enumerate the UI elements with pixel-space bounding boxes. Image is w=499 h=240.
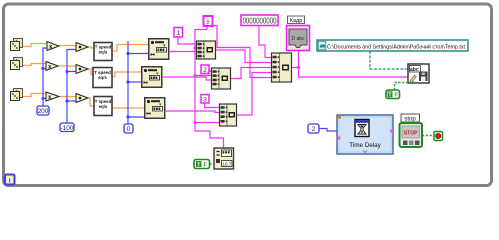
svg-text:stop: stop bbox=[404, 117, 416, 123]
svg-text:3: 3 bbox=[203, 97, 207, 104]
svg-text:eq/s: eq/s bbox=[99, 50, 108, 55]
svg-text:1: 1 bbox=[176, 30, 180, 37]
svg-text:-100: -100 bbox=[60, 125, 73, 132]
svg-text:200: 200 bbox=[38, 108, 49, 115]
svg-text:abc: abc bbox=[410, 67, 419, 73]
svg-text:Кадр: Кадр bbox=[290, 18, 303, 24]
svg-text:0000000000: 0000000000 bbox=[243, 17, 277, 26]
svg-text:Time Delay: Time Delay bbox=[349, 142, 381, 149]
svg-text:eq/s: eq/s bbox=[98, 75, 107, 80]
svg-text:2: 2 bbox=[203, 67, 207, 74]
svg-text:eq/s: eq/s bbox=[99, 104, 108, 109]
svg-text:STOP: STOP bbox=[404, 131, 418, 137]
svg-text:10.7: 10.7 bbox=[223, 162, 232, 167]
svg-text:D abc: D abc bbox=[291, 36, 305, 42]
svg-text:C:\Documents and Settings\Admi: C:\Documents and Settings\Admin\Рабочий … bbox=[327, 43, 465, 50]
svg-text:2: 2 bbox=[312, 126, 316, 133]
svg-text:0: 0 bbox=[127, 126, 131, 133]
